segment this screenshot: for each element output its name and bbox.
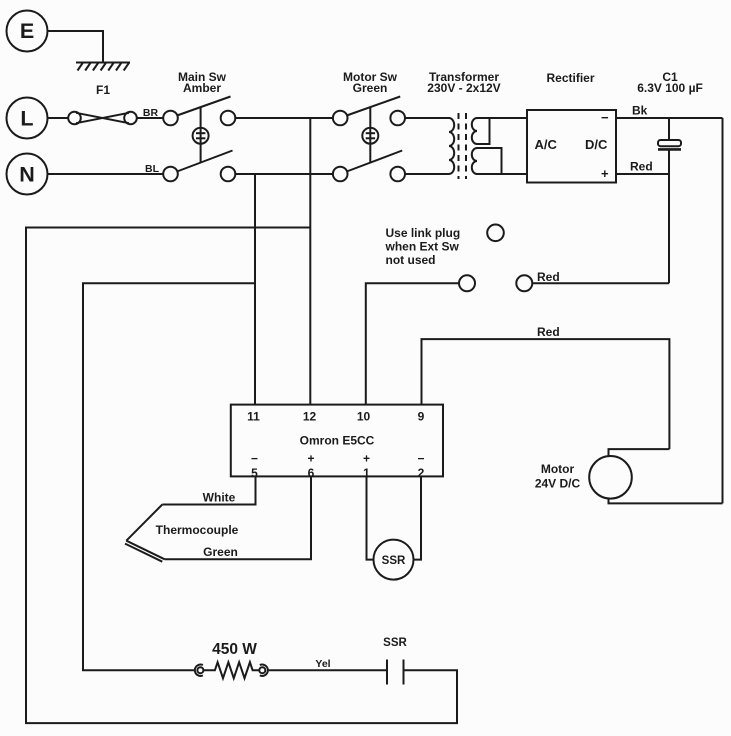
tap lower [477, 148, 502, 174]
svg-text:SSR: SSR [382, 555, 406, 567]
svg-text:E: E [20, 19, 34, 43]
svg-text:450 W: 450 W [212, 641, 257, 658]
svg-text:not used: not used [386, 253, 436, 267]
wire Main Sw to Motor Sw bottom [235, 173, 332, 175]
wire motor top [609, 449, 670, 456]
svg-text:White: White [203, 491, 236, 505]
heater connector left [195, 665, 204, 676]
svg-text:Yel: Yel [315, 658, 330, 670]
wire right drop from Bk [722, 118, 724, 503]
capacitor C1 [658, 118, 681, 283]
svg-text:L: L [20, 107, 33, 131]
wire pin 6 green [165, 476, 311, 559]
svg-text:Red: Red [537, 270, 560, 284]
wire L to fuse [48, 117, 69, 119]
wire Red rectifier plus [616, 173, 669, 175]
wire heater feed from pin 11 line [83, 283, 255, 670]
svg-text:24V D/C: 24V D/C [535, 477, 581, 491]
heater connector right [259, 665, 268, 676]
wire fuse to Main Sw [137, 117, 163, 119]
wire pin 12 to live row [309, 118, 311, 405]
svg-text:Green: Green [353, 81, 388, 95]
svg-text:6.3V 100 µF: 6.3V 100 µF [637, 81, 703, 95]
wire Yel [268, 669, 387, 671]
svg-text:Amber: Amber [183, 81, 221, 95]
svg-text:Green: Green [203, 545, 238, 559]
svg-text:Thermocouple: Thermocouple [156, 523, 239, 537]
svg-text:A/C: A/C [535, 137, 558, 152]
svg-text:Motor: Motor [541, 462, 575, 476]
tap upper [477, 118, 490, 144]
wire SSR contact to bottom loop [26, 228, 457, 724]
wire Motor Sw to transformer top [405, 117, 449, 119]
rectifier U2 [527, 110, 616, 183]
wire pin 5 white [162, 476, 255, 504]
svg-text:−: − [417, 452, 424, 466]
wire pin 2 to SSR [414, 476, 422, 559]
transformer T1 primary [449, 118, 454, 174]
terminal L [7, 98, 48, 139]
svg-text:Use link plug: Use link plug [386, 226, 461, 240]
transformer secondary upper winding [472, 118, 477, 144]
SSR contact [387, 660, 404, 685]
terminal E [7, 11, 48, 52]
svg-text:230V - 2x12V: 230V - 2x12V [427, 81, 500, 95]
wire motor bottom [609, 498, 723, 503]
link plug terminal left [459, 275, 475, 291]
lamp Green [362, 128, 378, 144]
svg-text:Red: Red [630, 160, 653, 174]
controller U1 Omron E5CC [231, 405, 443, 477]
thermocouple TC1 [125, 505, 165, 562]
SSR control circle [374, 540, 414, 580]
svg-text:Bk: Bk [632, 104, 648, 118]
svg-text:−: − [601, 110, 609, 125]
svg-text:BL: BL [145, 163, 160, 175]
wire Motor Sw to transformer bottom [405, 173, 449, 175]
svg-text:12: 12 [303, 410, 317, 424]
svg-text:+: + [307, 452, 314, 466]
wire Bk [616, 117, 723, 119]
wire Main Sw to Motor Sw top [235, 117, 332, 119]
wire N to Main Sw [48, 173, 164, 175]
wire pin 1 to SSR [367, 476, 374, 559]
svg-text:F1: F1 [96, 83, 110, 97]
svg-text:Rectifier: Rectifier [546, 71, 594, 85]
main switch SW1 [163, 97, 235, 182]
lamp Amber [193, 128, 209, 144]
transformer core [459, 113, 467, 179]
transformer secondary lower winding [472, 148, 477, 174]
svg-text:+: + [363, 452, 370, 466]
svg-text:D/C: D/C [585, 137, 608, 152]
terminal N [7, 154, 48, 195]
heater 450W R1 [203, 662, 259, 678]
wire Red bus to pin 9 [422, 339, 670, 449]
svg-text:when Ext Sw: when Ext Sw [385, 240, 460, 254]
ground [76, 63, 130, 71]
svg-text:9: 9 [418, 410, 425, 424]
svg-text:BR: BR [143, 107, 159, 119]
terminal Ext Sw [487, 225, 504, 242]
svg-text:Omron E5CC: Omron E5CC [300, 434, 375, 448]
wire link plug to pin 10 [366, 283, 459, 404]
motor M1 [589, 456, 632, 499]
fuse F1 [68, 112, 137, 125]
wire E to ground [48, 31, 104, 63]
svg-text:−: − [251, 452, 258, 466]
wire secondary top to rectifier [477, 117, 527, 119]
wire link plug right to C1 node [532, 282, 669, 284]
wire pin 11 to neutral row [254, 174, 256, 405]
svg-text:N: N [19, 163, 35, 187]
link plug terminal right [516, 275, 532, 291]
svg-text:11: 11 [247, 410, 260, 424]
motor switch SW2 [333, 97, 405, 182]
svg-text:10: 10 [357, 410, 371, 424]
svg-text:+: + [601, 166, 609, 181]
svg-text:Red: Red [537, 325, 560, 339]
wire secondary bottom to rectifier [477, 173, 527, 175]
svg-text:SSR: SSR [383, 637, 407, 649]
